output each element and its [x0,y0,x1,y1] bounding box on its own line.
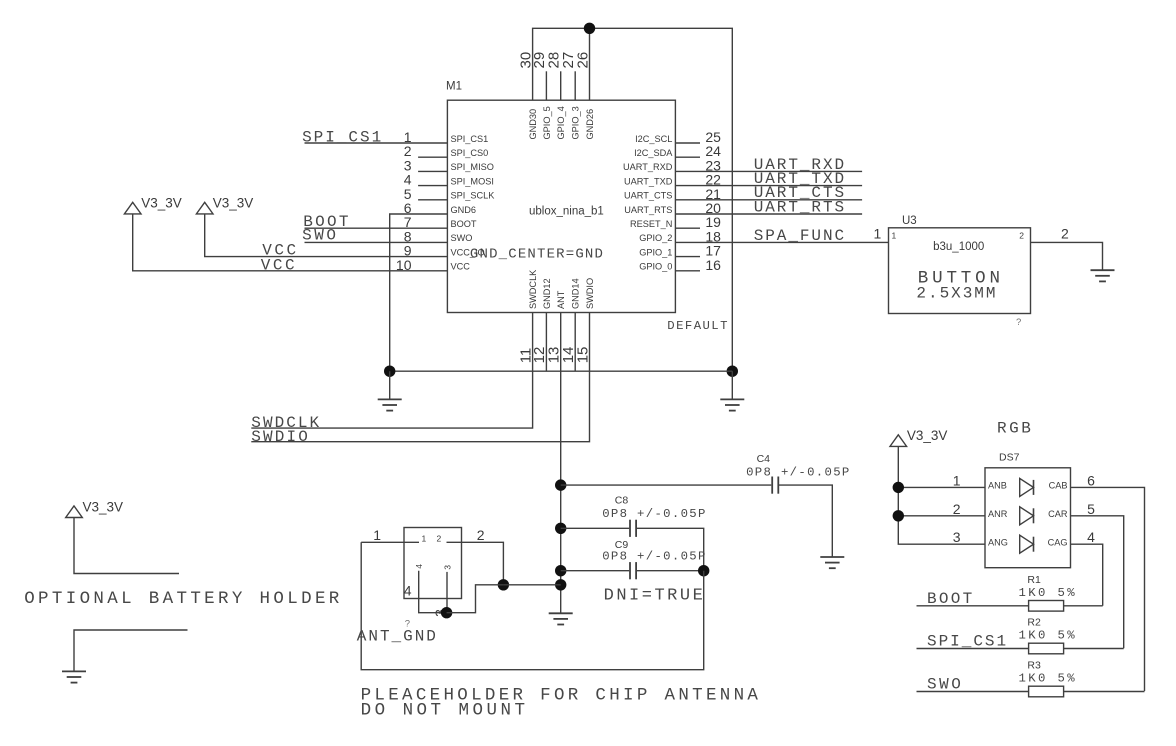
value R3 1K0 5% [1019,672,1076,686]
label RGB [997,420,1031,438]
net label SWDIO [251,428,307,446]
junction rgb pin1 [893,482,904,493]
wire UART_TXD [675,185,862,187]
M1 pin 17 GPIO_1 [639,243,721,259]
svg-text:6: 6 [1087,472,1095,488]
svg-text:C8: C8 [615,494,629,506]
antenna pin 2 [437,527,485,544]
capacitor C9 [630,562,636,579]
wire V3_3V rgb vertical [898,446,985,544]
label C4 [757,453,771,465]
wire DS7 pin6 to R3 [1071,487,1145,691]
wire U3 pin2 to ground [1031,242,1103,270]
label R3 [1027,660,1041,672]
label C8 [615,494,629,506]
svg-text:BOOT: BOOT [451,219,477,229]
wire GND12 down [545,313,547,372]
wire DS7 pin4 to R1 [1071,544,1103,606]
power V3_3V left 2 [196,202,213,214]
label V3_3V left 2 [213,195,254,210]
M1 pin 14 GND14 [560,278,581,363]
net label SWO [302,226,336,244]
value C8 0P8 +/-0.05P [602,507,705,521]
wire antenna pins34 step up [447,585,504,613]
power V3_3V left 1 [124,202,141,214]
DS7 pin 3 ANG [953,529,1008,547]
wire battery negative [74,630,188,671]
label BUTTON [918,268,1000,288]
M1 pin 8 SWO [404,228,473,244]
wire VCC pin9 [205,214,448,257]
wire ANT to C8 [561,527,630,529]
svg-text:ANT: ANT [556,290,566,309]
M1 pin 29 GPIO_5 [531,52,552,140]
svg-text:R2: R2 [1027,617,1041,629]
label V3_3V rgb [907,428,948,443]
svg-text:2: 2 [1019,231,1024,241]
svg-text:GND_CENTER=GND: GND_CENTER=GND [470,247,603,263]
svg-text:?: ? [1016,317,1021,328]
wire GND6 pin6 down-left [390,214,448,371]
antenna pin 4 [404,564,447,613]
M1 pin 4 SPI_MOSI [404,172,494,188]
ground U3 [1091,270,1115,281]
M1 pin 27 GPIO_3 [560,52,581,140]
svg-text:1: 1 [892,231,897,241]
note PLEACEHOLDER FOR CHIP ANTENNA [361,686,759,706]
label C9 [615,539,629,551]
svg-text:VCC_IO: VCC_IO [451,247,485,257]
DS7 pin 5 CAR [1048,501,1095,519]
wire ANT to C4 [561,484,772,486]
svg-text:ANG: ANG [988,537,1008,547]
net label BOOT at R1 [927,590,972,608]
DS7 pin 6 CAB [1049,472,1096,490]
ground right of IC [720,371,744,410]
svg-text:I2C_SDA: I2C_SDA [634,148,673,158]
junction left GND rail [384,366,395,377]
led diode 2 [1020,507,1034,525]
svg-text:4: 4 [404,583,412,599]
wire GND14 down [574,313,576,372]
label 2.5X3MM [916,284,995,302]
junction top GND [584,23,595,34]
label antenna question mark [405,619,410,630]
junction ANT C8 [555,523,566,534]
svg-text:V3_3V: V3_3V [83,500,124,515]
wire SPA_FUNC [675,241,888,243]
M1 pin 20 UART_RTS [624,200,721,216]
svg-text:GPIO_5: GPIO_5 [542,106,552,139]
wire battery positive [74,518,179,574]
svg-text:15: 15 [574,347,591,364]
label R1 [1027,574,1041,586]
svg-text:GPIO_4: GPIO_4 [556,106,566,139]
svg-text:SPI_CS0: SPI_CS0 [451,148,489,158]
svg-text:1: 1 [373,527,381,543]
resistor R3 [1029,686,1064,697]
net label SWO at R3 [927,676,961,694]
net label VCC pin10 [261,256,295,274]
svg-text:GPIO_0: GPIO_0 [639,262,672,272]
junction ANT C9 [555,565,566,576]
value C9 0P8 +/-0.05P [602,550,705,564]
svg-text:DS7: DS7 [999,451,1020,463]
label U3 [902,215,917,227]
wire SWO to R3 [917,691,1029,693]
button U3 body [889,228,1031,314]
wire GND bottom rail [390,370,733,372]
M1 pin 23 UART_RXD [623,157,721,173]
svg-text:ANB: ANB [988,481,1007,491]
led diode 1 [1020,478,1034,496]
svg-text:26: 26 [574,52,591,69]
svg-text:VCC: VCC [451,262,471,272]
svg-text:OPTIONAL BATTERY HOLDER: OPTIONAL BATTERY HOLDER [24,589,340,609]
ground left under IC [378,371,402,410]
M1 pin 5 SPI_SCLK [404,186,496,202]
note OPTIONAL BATTERY HOLDER [24,589,340,609]
svg-text:SPI_CS1: SPI_CS1 [302,129,381,147]
svg-text:SPI_CS1: SPI_CS1 [451,134,489,144]
M1 pin 21 UART_CTS [624,186,721,202]
DS7 pin 4 CAG [1048,529,1096,547]
label DEFAULT [667,319,727,333]
power V3_3V battery [66,506,83,518]
label b3u_1000 [933,241,984,253]
svg-text:5: 5 [1087,501,1095,517]
svg-text:V3_3V: V3_3V [141,195,182,210]
junction antenna pin2 [498,579,509,590]
svg-text:2: 2 [477,527,485,543]
svg-text:GPIO_1: GPIO_1 [639,247,672,257]
antenna pin 3 [432,565,452,617]
svg-text:UART_RXD: UART_RXD [623,162,673,172]
svg-text:GND6: GND6 [451,205,477,215]
label ublox_nina_b1 [529,206,604,218]
net label SPI_CS1 [302,129,381,147]
wire R2 right [1064,648,1124,650]
svg-text:1: 1 [874,226,882,242]
M1 pin 11 SWDCLK [517,269,538,363]
label V3_3V left 1 [141,195,182,210]
resistor R2 [1029,643,1064,654]
svg-text:ANR: ANR [988,509,1008,519]
M1 pin 30 GND30 [517,52,538,140]
svg-text:2: 2 [437,534,442,544]
M1 pin 9 VCC_IO [404,243,485,259]
wire ANT to C9 [561,570,630,572]
wire VCC pin10 [133,214,448,271]
svg-text:4: 4 [1087,529,1095,545]
wire GND pin26 up [589,28,591,100]
svg-text:I2C_SCL: I2C_SCL [635,134,672,144]
led diode 3 [1020,535,1034,553]
label DS7 [999,451,1020,463]
IC M1 ublox_nina_b1 body [447,100,675,312]
label U3 question mark [1016,317,1021,328]
wire R1 right [1064,605,1103,607]
wire SPI_CS1 to R2 [917,648,1029,650]
wire SWDIO [251,313,589,442]
wire UART_RXD [675,170,862,172]
label M1 [446,81,462,93]
M1 pin 12 GND12 [531,278,552,363]
wire SPI_CS1 [305,142,448,144]
svg-text:ublox_nina_b1: ublox_nina_b1 [529,206,604,218]
M1 pin 10 VCC [396,257,470,273]
svg-text:CAG: CAG [1048,537,1068,547]
svg-text:DEFAULT: DEFAULT [667,319,727,333]
svg-text:SWO: SWO [451,233,473,243]
wire BOOT to R1 [917,605,1029,607]
svg-text:VCC: VCC [261,256,295,274]
junction rgb pin2 [893,510,904,521]
note DO NOT MOUNT [361,701,525,721]
ground battery [62,671,86,682]
capacitor C8 [630,520,636,537]
svg-text:1: 1 [422,534,427,544]
power V3_3V rgb [890,435,907,447]
junction ANT C4 [555,479,566,490]
svg-text:UART_CTS: UART_CTS [624,191,672,201]
svg-text:0P8 +/-0.05P: 0P8 +/-0.05P [746,466,849,480]
M1 pin 15 SWDIO [574,278,595,363]
M1 pin 28 GPIO_4 [546,52,567,140]
svg-text:GND30: GND30 [528,109,538,140]
wire GND pin30 to top rail to right rail [533,28,733,371]
label V3_3V battery [83,500,124,515]
wire BOOT [305,227,448,229]
svg-text:U3: U3 [902,215,917,227]
svg-text:GPIO_2: GPIO_2 [639,233,672,243]
wire SWDCLK [251,313,532,429]
svg-text:GND12: GND12 [542,278,552,309]
value R2 1K0 5% [1019,629,1076,643]
junction ANT antenna [555,579,566,590]
svg-text:SWDIO: SWDIO [585,278,595,309]
M1 pin 6 GND6 [404,200,476,216]
svg-text:C4: C4 [757,453,771,465]
DS7 pin 1 ANB [953,472,1007,490]
svg-text:2.5X3MM: 2.5X3MM [916,284,995,302]
label GND_CENTER=GND [470,247,603,263]
wire DS7 pin1 [898,486,985,488]
label DNI=TRUE [604,587,703,606]
svg-text:R3: R3 [1027,660,1041,672]
svg-text:V3_3V: V3_3V [907,428,948,443]
svg-text:0P8 +/-0.05P: 0P8 +/-0.05P [602,550,705,564]
svg-text:ANT_GND: ANT_GND [357,628,436,646]
net label UART_CTS [754,184,844,202]
svg-text:UART_RTS: UART_RTS [624,205,672,215]
wire UART_RTS [675,213,862,215]
M1 pin 22 UART_TXD [624,172,721,188]
label R2 [1027,617,1041,629]
wire R3 right [1064,691,1145,693]
M1 pin 1 SPI_CS1 [404,129,489,145]
M1 pin 2 SPI_CS0 [404,143,489,159]
svg-text:SPI_SCLK: SPI_SCLK [451,191,496,201]
ground ANT [549,613,573,624]
svg-text:RESET_N: RESET_N [630,219,672,229]
value C4 0P8 +/-0.05P [746,466,849,480]
svg-text:UART_TXD: UART_TXD [624,176,673,186]
svg-text:1: 1 [953,472,961,488]
wire antenna pin2 down [447,542,504,585]
svg-text:SPI_MISO: SPI_MISO [451,162,494,172]
junction C9 right [698,565,709,576]
U3 pin 2 number [1019,226,1069,242]
junction antenna pins 3-4 [441,607,452,618]
svg-text:16: 16 [705,257,721,273]
svg-text:b3u_1000: b3u_1000 [933,241,984,253]
wire C9 right [637,570,704,572]
antenna placeholder body [404,528,462,599]
net label SWDCLK [251,414,319,432]
svg-text:RGB: RGB [997,420,1031,438]
svg-text:4: 4 [414,564,424,569]
value R1 1K0 5% [1019,586,1076,600]
U3 pin 1 number [874,226,897,242]
M1 pin 19 RESET_N [630,214,721,230]
wire antenna node to ANT [503,584,560,586]
net label UART_TXD [754,170,844,188]
antenna pin 1 [361,527,426,544]
svg-text:GND14: GND14 [571,278,581,309]
wire DS7 pin5 to R2 [1071,516,1124,649]
net label SPI_CS1 at R2 [927,633,1006,651]
M1 pin 7 BOOT [404,214,477,230]
rgb led DS7 body [985,468,1071,568]
svg-text:3: 3 [953,529,961,545]
svg-text:CAR: CAR [1048,509,1068,519]
M1 pin 16 GPIO_0 [639,257,721,273]
net label UART_RXD [754,156,844,174]
DS7 pin 2 ANR [953,501,1008,519]
svg-text:2: 2 [1061,226,1069,242]
svg-text:M1: M1 [446,81,462,93]
svg-text:2: 2 [953,501,961,517]
wire C4 to ground [779,485,833,557]
M1 pin 3 SPI_MISO [404,157,494,173]
svg-text:R1: R1 [1027,574,1041,586]
label ANT_GND [357,628,436,646]
svg-text:GPIO_3: GPIO_3 [571,106,581,139]
svg-text:V3_3V: V3_3V [213,195,254,210]
svg-text:SPI_MOSI: SPI_MOSI [451,176,494,186]
wire ANT vertical [560,313,562,614]
net label VCC pin9 [262,242,296,260]
net label UART_RTS [754,198,844,216]
junction right GND rail [727,366,738,377]
M1 pin 24 I2C_SDA [634,143,721,159]
wire C8 to C9 node [637,528,704,570]
M1 pin 13 ANT [546,290,567,363]
net label BOOT [303,213,348,231]
net label SPA_FUNC [754,227,844,245]
svg-text:SWDIO: SWDIO [251,428,307,446]
wire antenna pin1 loop [361,542,704,669]
svg-text:SWDCLK: SWDCLK [528,269,538,309]
wire SWO [305,241,448,243]
wire DS7 pin2 [898,515,985,517]
M1 pin 25 I2C_SCL [635,129,721,145]
svg-text:0P8 +/-0.05P: 0P8 +/-0.05P [602,507,705,521]
svg-text:GND26: GND26 [585,109,595,140]
M1 pin 26 GND26 [574,52,595,140]
wire UART_CTS [675,199,862,201]
resistor R1 [1029,601,1064,612]
M1 pin 18 GPIO_2 [639,228,721,244]
svg-text:CAB: CAB [1049,481,1068,491]
ground C4 [820,557,844,568]
svg-text:3: 3 [442,565,452,570]
capacitor C4 [772,477,778,494]
